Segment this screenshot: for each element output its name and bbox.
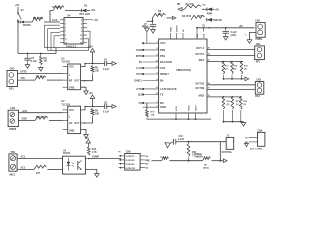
- svg-text:XCB: XCB: [203, 33, 205, 38]
- svg-text:B2: B2: [138, 92, 142, 96]
- svg-text:INT0: INT0: [136, 54, 143, 58]
- ground: [247, 40, 252, 44]
- connector CN6 alt resonator: [258, 132, 265, 146]
- resistor R10 470: [35, 116, 48, 120]
- svg-text:16: 16: [156, 60, 158, 62]
- wire TX0 with resistor R7: [18, 79, 36, 81]
- wire OUT B to CN1: [207, 55, 255, 57]
- wire AC1: [17, 158, 62, 160]
- connector CN1 RF1: [255, 46, 265, 60]
- svg-text:6: 6: [157, 106, 158, 108]
- wire cap rail: [18, 53, 56, 55]
- wire U2 GND to ground: [81, 129, 86, 134]
- svg-text:RXLED: RXLED: [214, 20, 222, 22]
- svg-text:270: 270: [36, 172, 41, 175]
- svg-text:TB1: TB1: [11, 151, 16, 154]
- svg-text:GND1: GND1: [134, 78, 142, 82]
- node PB flag input row1: [178, 8, 182, 12]
- svg-text:+5V: +5V: [215, 8, 220, 11]
- U5 left pin stubs: [63, 66, 68, 68]
- svg-text:0.1uF: 0.1uF: [143, 27, 150, 29]
- svg-text:COMP: COMP: [92, 155, 100, 158]
- wire: [44, 21, 60, 23]
- wire crystal branch: [219, 142, 221, 161]
- svg-text:TLC555: TLC555: [61, 61, 70, 64]
- svg-text:(16V): (16V): [231, 35, 237, 37]
- node output flag A: [112, 62, 116, 66]
- diode D1 1N4148: [17, 21, 19, 23]
- LED D4 BLK: [82, 9, 87, 12]
- svg-text:4: 4: [157, 78, 158, 81]
- svg-text:TLC555: TLC555: [61, 103, 70, 106]
- svg-text:(X): (X): [243, 104, 246, 106]
- wire: [25, 21, 33, 23]
- svg-text:OUT1B: OUT1B: [195, 81, 204, 85]
- svg-text:R10 470: R10 470: [36, 116, 46, 119]
- wire OUT A to CN1: [207, 48, 255, 50]
- capacitor C10 2.2uF: [172, 139, 174, 145]
- wire: [211, 160, 223, 162]
- svg-text:11: 11: [156, 66, 158, 68]
- resistor R19 10K pulldown: [146, 103, 148, 110]
- resistor R15: [240, 62, 243, 74]
- svg-text:OF: OF: [69, 122, 73, 125]
- svg-text:74HC14: 74HC14: [66, 45, 77, 49]
- wire +5V rail: [197, 27, 255, 29]
- svg-text:2.2uF: 2.2uF: [178, 138, 185, 141]
- svg-text:R5 4.7M: R5 4.7M: [33, 17, 42, 20]
- svg-text:5: 5: [157, 72, 158, 74]
- svg-text:9: 9: [65, 35, 66, 37]
- wire U2 OUT feedback: [81, 116, 93, 123]
- U4 left pin stubs: [60, 19, 64, 21]
- svg-text:PB1: PB1: [160, 54, 166, 58]
- svg-text:PC0: PC0: [136, 72, 142, 76]
- svg-text:4 PB3/TM: 4 PB3/TM: [126, 167, 135, 170]
- U1 top pins: [170, 33, 172, 39]
- svg-text:0.1uF: 0.1uF: [31, 60, 38, 63]
- svg-text:CN2: CN2: [10, 68, 15, 71]
- wire AC2 with resistor R11: [17, 169, 34, 171]
- svg-text:PWR1: PWR1: [256, 38, 264, 41]
- resistor R6A 100: [152, 13, 165, 18]
- svg-text:CLK: CLK: [52, 18, 58, 22]
- CN5 right pins: [140, 155, 145, 157]
- connector CN2 RF2: [255, 82, 263, 95]
- svg-text:8: 8: [81, 31, 82, 33]
- wire M1B to resistor bank2: [207, 96, 241, 98]
- wire with resistor R10: [18, 120, 35, 122]
- svg-text:+5V: +5V: [85, 137, 90, 140]
- svg-text:RS1: RS1: [9, 88, 14, 91]
- svg-text:CN4: CN4: [255, 20, 260, 23]
- LED D6 TX: [206, 19, 207, 21]
- svg-text:B4: B4: [160, 78, 164, 82]
- wire switch to cap rail: [17, 22, 19, 54]
- resistor R3 4.7K: [53, 6, 64, 11]
- wire: [176, 141, 189, 143]
- svg-text:S1: S1: [21, 8, 25, 12]
- wire U5 OUT feedback: [81, 74, 93, 81]
- svg-text:8: 8: [157, 54, 158, 56]
- wire +12V: [18, 112, 62, 114]
- power +5V arrow for R12: [88, 143, 90, 147]
- svg-text:PWR3: PWR3: [9, 128, 17, 131]
- svg-text:SCIO: SCIO: [176, 106, 178, 111]
- svg-text:OUT7A: OUT7A: [195, 52, 204, 56]
- svg-text:10K: 10K: [95, 114, 100, 116]
- wire: [49, 120, 63, 122]
- capacitor C4 0.1uF 16V: [225, 28, 227, 31]
- wire CN4 pin2 to ground: [250, 32, 257, 39]
- power +5V arrow for U5: [92, 52, 94, 64]
- node flag bank1: [245, 77, 249, 81]
- svg-text:TX: TX: [160, 92, 164, 96]
- capacitor C9 0.1uF: [104, 61, 106, 66]
- svg-text:VCC: VCC: [69, 109, 74, 112]
- svg-text:MIC1: MIC1: [10, 174, 16, 177]
- ground: [151, 30, 156, 34]
- svg-text:T0: T0: [139, 60, 143, 64]
- svg-text:(X): (X): [233, 68, 236, 70]
- svg-text:9: 9: [157, 48, 158, 50]
- wire U5 VCC to +5V node: [81, 64, 105, 67]
- svg-text:12: 12: [80, 39, 82, 41]
- svg-text:+5V: +5V: [89, 92, 94, 95]
- svg-text:ALT: C.RES: ALT: C.RES: [250, 148, 262, 151]
- LED D5 PWR: [207, 8, 212, 12]
- microcontroller U1 TMS3705: [159, 39, 207, 113]
- svg-text:FREQ: FREQ: [189, 105, 191, 111]
- resistor R5 4.7M: [32, 17, 43, 22]
- node flag after R6A: [173, 16, 176, 19]
- svg-text:1N4148: 1N4148: [23, 24, 32, 27]
- CN5 left pins: [119, 155, 125, 157]
- svg-text:10: 10: [80, 35, 82, 37]
- svg-text:OUT: OUT: [74, 80, 80, 83]
- wire: [40, 66, 42, 68]
- svg-text:+5V: +5V: [89, 46, 94, 49]
- ground: [39, 68, 44, 72]
- svg-text:RESET: RESET: [160, 72, 169, 76]
- svg-text:GND: GND: [160, 105, 166, 109]
- svg-text:1: 1: [157, 42, 158, 44]
- svg-text:CN6: CN6: [258, 130, 263, 132]
- svg-text:1: 1: [65, 20, 66, 22]
- svg-text:11: 11: [65, 39, 67, 41]
- svg-text:6: 6: [81, 27, 82, 29]
- svg-text:GND2: GND2: [196, 105, 198, 111]
- wire CN6 pin2: [249, 141, 258, 143]
- svg-text:R3 4.7K: R3 4.7K: [53, 6, 62, 9]
- svg-text:+5V: +5V: [91, 8, 96, 12]
- wire to crystal: [189, 141, 227, 143]
- wire +5V rail stub: [147, 20, 153, 22]
- power +5V arrow for U2: [92, 99, 94, 107]
- wire U4 feedback loops: [45, 25, 91, 47]
- wire: [87, 10, 90, 12]
- resistor R20: [162, 157, 169, 161]
- svg-text:4.7K: 4.7K: [92, 151, 97, 154]
- svg-text:0.1uF: 0.1uF: [231, 32, 238, 34]
- svg-text:GND: GND: [69, 86, 75, 89]
- resistor R18: [240, 97, 243, 109]
- svg-text:3: 3: [65, 24, 66, 26]
- svg-text:2: 2: [157, 101, 158, 103]
- resistor R2 1M: [40, 54, 42, 57]
- svg-text:BLK LED: BLK LED: [80, 13, 91, 16]
- switch S1: [17, 7, 19, 13]
- svg-text:CN5: CN5: [126, 150, 131, 153]
- svg-text:2: 2: [81, 20, 82, 22]
- svg-text:TX: TX: [138, 101, 142, 105]
- capacitor C7 0.1uF: [151, 21, 153, 24]
- svg-text:TX: TX: [147, 160, 150, 163]
- wire OUT1B to CN2: [207, 84, 255, 86]
- svg-text:PWR: PWR: [207, 14, 213, 16]
- resistor R8 10K: [91, 66, 94, 73]
- wire: [107, 63, 112, 65]
- connector CON3: [8, 110, 18, 126]
- svg-text:R4 470: R4 470: [186, 3, 194, 6]
- connector CN4 PWR1: [256, 23, 265, 38]
- wire: [212, 19, 214, 21]
- resistor R13: [222, 62, 225, 74]
- resistor R14: [231, 62, 234, 74]
- wire TX row: [152, 160, 162, 162]
- svg-text:0.1uF: 0.1uF: [103, 69, 110, 71]
- svg-text:AC1: AC1: [20, 156, 25, 159]
- svg-text:R6 4700: R6 4700: [182, 15, 192, 18]
- ground CN6: [246, 142, 248, 144]
- svg-text:10K: 10K: [151, 114, 155, 116]
- svg-text:CRYSTAL: CRYSTAL: [222, 151, 233, 154]
- svg-text:2 PB1/RX: 2 PB1/RX: [126, 160, 136, 162]
- wire bottom bus: [147, 117, 211, 120]
- svg-text:1M: 1M: [43, 60, 46, 63]
- svg-text:PRESET: PRESET: [195, 156, 204, 158]
- resistor R12 4.7K pullup: [85, 158, 88, 160]
- wire: [18, 20, 20, 23]
- ground tilted for C10: [165, 143, 170, 148]
- U1 left pins with net labels: [143, 42, 159, 44]
- wire: [107, 105, 112, 107]
- ground: [84, 135, 89, 139]
- wire: [65, 10, 81, 12]
- resistor R4 470: [182, 8, 185, 10]
- opto-isolator U3 PC817: [63, 156, 86, 174]
- svg-text:U4: U4: [67, 14, 71, 18]
- wire U5 GND to ground: [81, 87, 86, 91]
- op-amp U2 TLC555: [68, 106, 81, 133]
- svg-text:OUT A: OUT A: [196, 46, 204, 50]
- U2 left pin stubs: [63, 109, 68, 111]
- connector TB1: [9, 154, 17, 171]
- svg-text:LATCH/GATE: LATCH/GATE: [160, 87, 177, 91]
- svg-text:SENSE: SENSE: [176, 25, 178, 32]
- svg-text:VCC: VCC: [160, 41, 166, 45]
- wire riser to +5V rail: [151, 18, 153, 21]
- svg-text:(X): (X): [244, 68, 247, 70]
- connector CN5 header: [125, 154, 140, 171]
- ground: [95, 174, 100, 178]
- crystal Y1: [226, 137, 234, 149]
- wire DTR2: [18, 72, 63, 74]
- svg-text:R12: R12: [92, 149, 97, 151]
- wire: [47, 79, 63, 81]
- ground: [84, 91, 89, 95]
- svg-text:5K: 5K: [204, 165, 207, 167]
- ground bank2: [243, 121, 245, 124]
- svg-text:13: 13: [156, 93, 158, 95]
- wire: [167, 17, 173, 19]
- resistor R9 10K: [91, 108, 94, 115]
- wire COMP: [89, 158, 121, 160]
- svg-text:PB0: PB0: [160, 48, 166, 52]
- wire: [50, 11, 53, 23]
- wire bank1 bottom rail: [223, 78, 245, 80]
- svg-text:GND: GND: [69, 130, 75, 133]
- resistor R16: [222, 97, 225, 109]
- svg-text:CN2: CN2: [256, 79, 261, 82]
- ground: [25, 65, 30, 69]
- svg-text:CN1: CN1: [256, 43, 261, 46]
- svg-text:(ADJ): (ADJ): [203, 166, 209, 169]
- svg-text:TX0: TX0: [20, 77, 25, 80]
- resistor R7 470: [35, 76, 46, 80]
- svg-text:CTS: CTS: [136, 87, 142, 91]
- node output flag B: [112, 105, 116, 109]
- capacitor C5 0.1uF: [27, 54, 29, 59]
- svg-text:VBAT: VBAT: [169, 26, 172, 32]
- svg-text:NF: NF: [69, 80, 73, 83]
- wire CN6 pin1: [249, 136, 258, 138]
- svg-text:XCA: XCA: [196, 33, 199, 38]
- wire bank2 bottom rail: [223, 121, 243, 123]
- capacitor C8 0.1uF: [104, 104, 106, 109]
- svg-text:+5V: +5V: [239, 25, 244, 28]
- ground: [223, 37, 228, 41]
- svg-text:PC817: PC817: [63, 152, 71, 155]
- op-amp U5 TLC555: [68, 64, 81, 90]
- svg-text:+12V: +12V: [22, 110, 28, 113]
- wire opto emitter to ground: [85, 170, 96, 174]
- op-amp U4 74HC14 hex inverter: [64, 18, 83, 45]
- wire U4 output to +5V: [87, 19, 93, 21]
- svg-text:TMS3704Q: TMS3704Q: [176, 68, 192, 72]
- wire U2 VCC to +5V node: [81, 106, 105, 110]
- svg-text:CSA: CSA: [160, 66, 166, 70]
- node flag TX out: [223, 159, 227, 163]
- svg-text:(X): (X): [236, 104, 239, 106]
- resistor R17: [231, 97, 234, 109]
- wire: [212, 8, 214, 10]
- svg-text:GND: GND: [22, 118, 28, 121]
- svg-text:10K: 10K: [95, 71, 100, 73]
- svg-text:RX: RX: [160, 101, 164, 105]
- svg-text:DACOON: DACOON: [160, 60, 172, 64]
- junction: [27, 53, 29, 55]
- svg-text:7: 7: [65, 31, 66, 33]
- svg-text:(X): (X): [227, 104, 230, 106]
- svg-text:0.1uF: 0.1uF: [103, 112, 110, 114]
- U1 bottom pins: [175, 113, 177, 119]
- svg-text:AC2: AC2: [20, 166, 25, 169]
- U4 right pin stubs: [83, 19, 87, 21]
- connector CON2: [7, 71, 18, 87]
- svg-text:OUT0B: OUT0B: [195, 86, 204, 90]
- svg-text:VCC: VCC: [69, 66, 74, 69]
- resistor R11 270: [34, 165, 47, 169]
- svg-text:CN3: CN3: [10, 107, 15, 110]
- svg-text:RF1: RF1: [256, 60, 261, 63]
- svg-text:13: 13: [65, 43, 67, 45]
- svg-text:DTR2: DTR2: [20, 71, 27, 74]
- inductor L1 100 OHM: [187, 144, 190, 157]
- wire: [170, 160, 203, 162]
- svg-text:OUT: OUT: [74, 122, 80, 125]
- svg-text:C1A: C1A: [136, 66, 143, 70]
- wire: [202, 8, 207, 10]
- svg-text:1 PB0/TX: 1 PB0/TX: [126, 156, 135, 158]
- svg-text:RF2: RF2: [255, 95, 260, 98]
- wire: [188, 158, 190, 161]
- svg-text:+5V: +5V: [15, 4, 20, 7]
- svg-text:M1B: M1B: [199, 94, 205, 98]
- svg-text:PB: PB: [177, 4, 181, 6]
- wire: [48, 169, 63, 171]
- svg-text:12: 12: [156, 87, 158, 89]
- svg-text:R7 470: R7 470: [36, 76, 44, 79]
- svg-text:M1A: M1A: [199, 58, 205, 62]
- svg-text:5: 5: [65, 27, 66, 29]
- svg-text:RX0: RX0: [136, 48, 142, 52]
- wire M1A to resistor bank: [207, 61, 243, 63]
- wire OUT0B to CN2: [207, 89, 255, 91]
- svg-text:+5V: +5V: [94, 18, 99, 22]
- svg-text:(X): (X): [225, 68, 228, 70]
- svg-text:3 PB2/IN: 3 PB2/IN: [126, 164, 135, 166]
